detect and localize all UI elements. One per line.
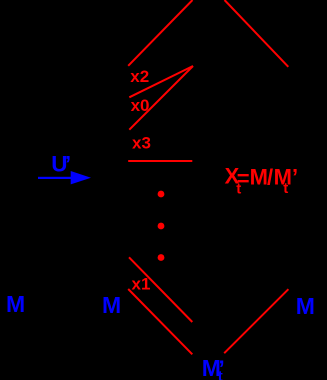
svg-text:M: M	[6, 291, 25, 317]
svg-text:t: t	[218, 368, 223, 380]
svg-text:t: t	[236, 181, 241, 198]
svg-text:M: M	[296, 293, 315, 319]
svg-text:x1: x1	[132, 274, 151, 293]
svg-text:x0: x0	[131, 96, 150, 115]
svg-text:’: ’	[292, 165, 298, 190]
svg-text:t: t	[283, 180, 288, 197]
svg-text:M: M	[250, 165, 268, 190]
svg-text:’: ’	[65, 152, 71, 177]
svg-text:M: M	[102, 292, 121, 318]
svg-text:/: /	[267, 165, 273, 190]
svg-text:x2: x2	[130, 67, 149, 86]
svg-text:x3: x3	[132, 134, 151, 153]
